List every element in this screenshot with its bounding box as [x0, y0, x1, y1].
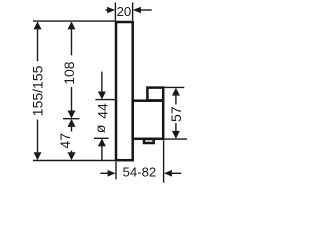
- svg-text:47: 47: [57, 133, 73, 149]
- dimension line 57 lower segment: [175, 123, 177, 131]
- dimension line 20 left tail: [105, 9, 107, 11]
- svg-text:44: 44: [95, 103, 111, 119]
- arrow 20 left (outside pointing right): [107, 7, 115, 14]
- extension line diameter 44 bottom: [94, 137, 109, 139]
- arrow diameter 44 bottom (outside pointing up): [98, 138, 106, 146]
- extension line diameter 44 top: [96, 99, 116, 101]
- svg-text:54-82: 54-82: [123, 165, 157, 180]
- arrow 57 top (up): [172, 88, 180, 96]
- dimension line 54-82 left tail: [100, 172, 108, 174]
- svg-text:108: 108: [61, 61, 77, 85]
- arrow 20 right (outside pointing left): [133, 7, 141, 14]
- dimension line 20 right tail: [140, 9, 151, 11]
- arrow 155/155 bottom (down): [34, 152, 42, 160]
- arrow 54-82 right (outside pointing left): [164, 170, 172, 177]
- dimension line 57 upper segment: [175, 96, 177, 105]
- arrow diameter 44 top (outside pointing down): [98, 92, 106, 100]
- svg-text:ø: ø: [92, 124, 108, 133]
- extension line bottom baseline (plate bottom edge extended left): [33, 160, 116, 162]
- handle body side view: [133, 101, 164, 139]
- extension line 54-82 right vertical: [163, 140, 165, 182]
- tick junction 108/47: [63, 118, 80, 120]
- arrow 47 bottom (down): [68, 152, 76, 160]
- plate escutcheon side view: [116, 22, 133, 160]
- extension line top (plate top edge extended left): [33, 20, 116, 22]
- arrow 47 top (up): [68, 119, 76, 127]
- arrow 108 top (up): [68, 21, 76, 29]
- handle top step (select button): [147, 88, 163, 101]
- dimension line 155/155 lower segment: [37, 120, 39, 153]
- dimension line 108 upper segment: [71, 29, 73, 55]
- dimension line 108 lower segment: [71, 87, 73, 111]
- dimension line 54-82 right tail: [172, 172, 182, 174]
- dimension line 47 upper segment: [71, 127, 73, 132]
- extension line 20 left vertical: [114, 3, 116, 21]
- svg-text:155/155: 155/155: [30, 65, 46, 116]
- dimension line 47 lower segment: [71, 151, 73, 153]
- arrow 155/155 top (up): [34, 21, 42, 29]
- svg-text:20: 20: [117, 4, 132, 19]
- extension line 57 top: [164, 86, 185, 88]
- handle bottom notch: [144, 139, 154, 143]
- dimension line diameter 44 upper segment: [101, 72, 103, 92]
- dimension line diameter 44 lower segment with tail to baseline: [101, 146, 103, 160]
- arrow 57 bottom (down): [172, 131, 180, 139]
- extension line 57 bottom: [164, 138, 187, 140]
- svg-text:57: 57: [168, 106, 184, 122]
- arrow 108 bottom (down): [68, 111, 76, 119]
- dimension line 155/155 upper segment: [37, 29, 39, 61]
- arrow 54-82 left (outside pointing right): [108, 170, 116, 177]
- extension line 20 right vertical: [132, 3, 134, 21]
- extension line 54-82 left vertical: [115, 162, 117, 180]
